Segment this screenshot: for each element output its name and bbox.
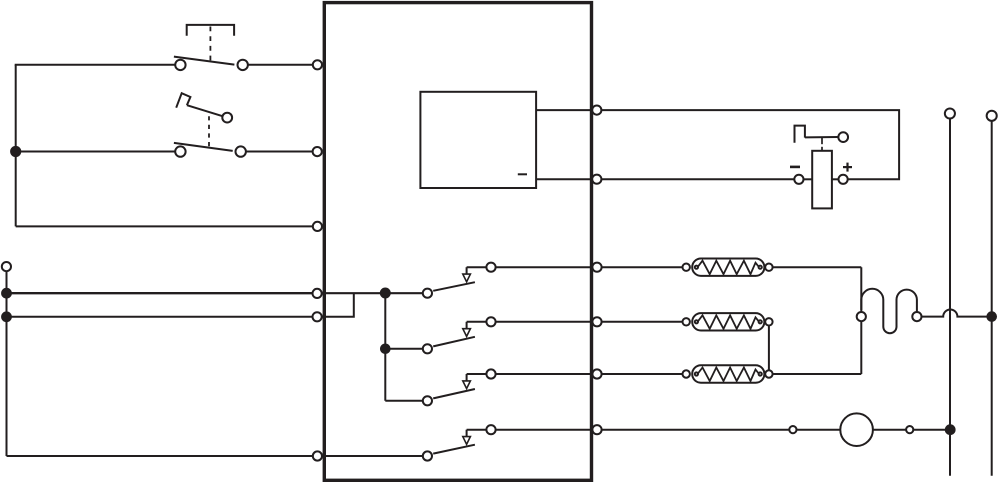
- wire: supply line 2: [991, 121, 993, 476]
- control board: [420, 92, 536, 188]
- battery BT1: [794, 151, 847, 209]
- relay contact K1: [423, 263, 496, 298]
- heater H2: [683, 313, 773, 330]
- control board minus polarity label: [518, 173, 527, 175]
- thermostat switch S1: [174, 57, 248, 71]
- wire: K2 to right terminal: [496, 321, 593, 323]
- wire: K3 to right terminal: [496, 373, 593, 375]
- wire: H2 to H3 series link: [768, 326, 770, 371]
- wire: protector riser: [860, 267, 862, 374]
- heater H3: [683, 365, 773, 382]
- wire: row B right: [246, 151, 313, 153]
- relay contact K2: [423, 317, 496, 353]
- node: supply line 2 top terminal: [987, 111, 997, 121]
- wire: feed bottom: [7, 455, 314, 457]
- relay contact K3: [423, 369, 496, 405]
- wire: row B left: [15, 151, 176, 153]
- wire: control board output lower: [536, 178, 593, 180]
- terminal: box right K4: [592, 425, 601, 434]
- wire: row A right: [248, 64, 313, 66]
- terminal: box left row C: [313, 222, 322, 231]
- wire: terminal to heater H3: [602, 373, 683, 375]
- mechanical link (dashed) of S2: [208, 116, 210, 146]
- terminal: box left row A: [313, 60, 322, 69]
- terminal: box right battery: [592, 175, 601, 184]
- wire: into motor: [797, 429, 841, 431]
- wire: K4 to right terminal: [496, 429, 593, 431]
- manual switch S2: [174, 143, 246, 157]
- node: motor lead-out: [906, 426, 913, 433]
- wire: F1 to supply line 2 with hop over line 1: [922, 310, 992, 317]
- wire: K1 to right terminal: [496, 266, 593, 268]
- wire: common bus riser: [384, 293, 386, 401]
- node: motor lead-in: [789, 426, 796, 433]
- wire: feed 2 jog up to feed 1: [322, 293, 354, 317]
- wire: out of motor: [873, 429, 906, 431]
- wire: supply line 1: [949, 119, 951, 476]
- terminal: box left feed 1: [313, 289, 322, 298]
- wire: control board output upper: [536, 109, 593, 111]
- battery plus label: [843, 163, 852, 172]
- junction: on supply line 1: [946, 425, 955, 434]
- wire: terminal to heater H1: [602, 266, 683, 268]
- wire: left riser top section: [15, 65, 17, 227]
- terminal: box left bottom: [313, 451, 322, 460]
- wire: row A left: [15, 64, 176, 66]
- motor M1: [840, 413, 873, 446]
- wire: motor to supply line 1: [913, 429, 950, 431]
- battery engage lever: [795, 126, 849, 143]
- wire: left lower riser: [6, 271, 8, 456]
- junction: common bus node 2: [381, 345, 390, 354]
- node: supply line 1 top terminal: [945, 108, 955, 118]
- mechanical link (dashed) of S1: [209, 27, 211, 61]
- wire: feed 1 inside box to common bus: [322, 292, 423, 294]
- terminal: box right upper: [592, 106, 601, 115]
- battery minus label: [790, 166, 800, 169]
- wire: H1 to protector riser: [773, 266, 862, 268]
- wire: row C: [16, 225, 313, 227]
- terminal: box right K3: [592, 369, 601, 378]
- wire: feed 2: [7, 316, 314, 318]
- junction: riser to feed wire 2: [2, 312, 11, 321]
- thermal protector F1 (wavy element): [857, 289, 922, 333]
- relay contact K4: [423, 425, 496, 461]
- wire: H3 to protector riser: [773, 373, 862, 375]
- terminal: box right K1: [592, 263, 601, 272]
- control unit enclosure: [324, 3, 591, 481]
- mechanical link (dashed) of battery lever: [821, 137, 823, 150]
- thermostat sensor bracket of S1: [187, 25, 234, 36]
- wire: terminal to heater H2: [602, 321, 683, 323]
- junction: riser to feed wire 1: [2, 289, 11, 298]
- wire: battery loop top and right: [602, 110, 900, 179]
- terminal: box right K2: [592, 317, 601, 326]
- node: power input terminal left: [2, 262, 11, 271]
- wire: terminal to motor: [602, 429, 790, 431]
- wire: bottom feed inside box to contact K4: [322, 455, 423, 457]
- junction: left riser to row B: [11, 147, 20, 156]
- wire: bus to contact K3: [385, 400, 423, 402]
- wire: terminal to battery minus: [602, 178, 795, 180]
- terminal: box left row B: [313, 147, 322, 156]
- junction: common bus node 1: [381, 289, 390, 298]
- wire: bus to contact K2: [385, 348, 423, 350]
- manual actuator lever of S2: [176, 93, 232, 122]
- junction: on supply line 2: [987, 312, 996, 321]
- wire: feed 1: [7, 292, 314, 294]
- terminal: box left feed 2: [313, 312, 322, 321]
- heater H1: [683, 259, 773, 276]
